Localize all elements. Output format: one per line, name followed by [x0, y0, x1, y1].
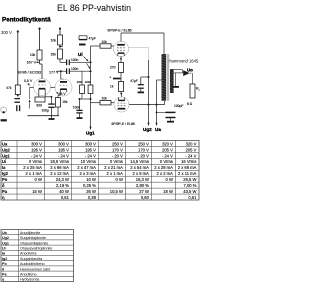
- resistor R6 15k cathode V2: [56, 98, 61, 108]
- svg-text:Ig2: Ig2: [2, 257, 7, 261]
- resistor R10 upper series cathode: [119, 63, 124, 73]
- resistor R11 lower series cathode: [119, 82, 124, 92]
- svg-text:Po: Po: [2, 262, 7, 266]
- svg-text:Ohjausvaihtojännite: Ohjausvaihtojännite: [20, 246, 52, 250]
- svg-text:Harmooninen särö: Harmooninen särö: [20, 267, 50, 271]
- wire V2 supply drop: [59, 29, 61, 35]
- svg-text:0 Vrms: 0 Vrms: [110, 159, 123, 164]
- svg-text:- 24 V: - 24 V: [185, 153, 196, 158]
- svg-text:Ui: Ui: [2, 159, 6, 164]
- wire R5 out to C4: [59, 59, 61, 62]
- capacitor C5 100n lower coupling: [61, 70, 67, 72]
- svg-text:Suojahilavirta: Suojahilavirta: [20, 257, 43, 261]
- svg-text:2 x 2 mA: 2 x 2 mA: [157, 171, 174, 176]
- capacitor symbol annotation box: [79, 36, 87, 40]
- capacitor C2 coupling vertical plates: [16, 105, 18, 111]
- svg-text:15 W: 15 W: [32, 189, 42, 194]
- svg-text:220k: 220k: [85, 80, 91, 84]
- svg-text:15k: 15k: [62, 100, 68, 104]
- svg-text:100n: 100n: [71, 67, 79, 71]
- wire 300V rail drop left: [17, 32, 19, 86]
- svg-text:167 V: 167 V: [27, 61, 37, 65]
- capacitor symbol annotation bar: [79, 44, 86, 46]
- svg-text:0,60: 0,60: [141, 195, 150, 200]
- resistor R2 10k anode V1: [37, 50, 42, 60]
- svg-text:24,3 W: 24,3 W: [56, 177, 69, 182]
- node mid cathode: [120, 73, 122, 82]
- resistor R5 15k: [58, 49, 63, 59]
- ground symbol bus: [51, 116, 53, 119]
- svg-text:EL 86 PP-vahvistin: EL 86 PP-vahvistin: [57, 3, 131, 13]
- ground bias cap: [79, 113, 81, 117]
- svg-text:2,19 %: 2,19 %: [56, 183, 69, 188]
- svg-text:- 24 V: - 24 V: [85, 153, 96, 158]
- svg-text:Ia: Ia: [2, 165, 6, 170]
- resistor R7 220k grid leak upper: [80, 85, 85, 94]
- svg-text:40 W: 40 W: [59, 189, 69, 194]
- svg-text:0,61: 0,61: [188, 195, 197, 200]
- svg-text:7,00 %: 7,00 %: [183, 183, 196, 188]
- resistor R9 1k grid stopper upper: [100, 44, 111, 48]
- svg-text:300 V: 300 V: [1, 30, 12, 35]
- wire to V4: [120, 92, 123, 98]
- annotation arrow input signal: [29, 100, 31, 109]
- capacitor C1 plates: [14, 98, 20, 100]
- node between R4 R5: [59, 46, 61, 48]
- svg-text:0,5 V: 0,5 V: [24, 79, 33, 83]
- svg-text:6P/9P-E / EL86: 6P/9P-E / EL86: [112, 122, 135, 126]
- svg-text:Pa: Pa: [2, 272, 7, 276]
- svg-text:26 W: 26 W: [86, 189, 96, 194]
- svg-text:27 W: 27 W: [139, 189, 149, 194]
- svg-text:2 x 12 mA: 2 x 12 mA: [50, 171, 69, 176]
- resistor RL load: [192, 73, 194, 84]
- wire secondary top: [174, 69, 183, 71]
- svg-text:820: 820: [37, 103, 43, 107]
- svg-text:300 V: 300 V: [85, 141, 96, 146]
- ground input: [1, 119, 7, 121]
- svg-text:250 V: 250 V: [138, 141, 149, 146]
- ground C7: [138, 91, 144, 93]
- svg-text:- 24 V: - 24 V: [162, 153, 173, 158]
- svg-text:Uo: Uo: [187, 67, 193, 72]
- ground C8: [167, 121, 174, 123]
- wire R6 to ground bus: [57, 107, 59, 116]
- svg-text:10k: 10k: [102, 40, 108, 44]
- table legend: [1, 230, 74, 282]
- node V2 anode: [60, 70, 62, 72]
- svg-text:2 x 11 mA: 2 x 11 mA: [178, 171, 197, 176]
- svg-text:Ug1: Ug1: [2, 241, 9, 245]
- svg-text:Ua: Ua: [2, 141, 8, 146]
- svg-text:Hyötysuhde: Hyötysuhde: [20, 278, 39, 282]
- svg-text:- 20 V: - 20 V: [138, 153, 149, 158]
- svg-text:26,5 W: 26,5 W: [183, 177, 196, 182]
- svg-text:170 V: 170 V: [112, 147, 123, 152]
- svg-text:320 V: 320 V: [186, 141, 197, 146]
- svg-text:δ: δ: [2, 267, 5, 271]
- resistor R3 820 cathode V1: [35, 97, 45, 102]
- svg-text:2 x 1 mA: 2 x 1 mA: [26, 171, 43, 176]
- capacitor C3 100u cathode bypass: [51, 97, 53, 104]
- svg-text:1k: 1k: [110, 84, 114, 88]
- node anode supply V1: [38, 28, 40, 30]
- svg-text:+: +: [109, 76, 111, 80]
- svg-text:Ia: Ia: [2, 252, 6, 256]
- svg-text:Ui: Ui: [78, 52, 83, 57]
- svg-text:2 x 21 mA: 2 x 21 mA: [104, 165, 123, 170]
- svg-text:Suojahilajännite: Suojahilajännite: [20, 236, 46, 240]
- svg-text:2 x 66 mA: 2 x 66 mA: [50, 165, 69, 170]
- svg-text:Ug2: Ug2: [2, 147, 11, 152]
- svg-text:195 V: 195 V: [58, 147, 69, 152]
- transformer T1 primary: [162, 54, 167, 101]
- svg-text:2 x 54 mA: 2 x 54 mA: [130, 165, 149, 170]
- ground bus: [28, 115, 60, 117]
- svg-text:- 24 V: - 24 V: [58, 153, 69, 158]
- resistor R8 220k grid leak lower: [88, 85, 93, 94]
- wire R2 to V1 anode: [39, 60, 41, 64]
- svg-text:205 V: 205 V: [186, 147, 197, 152]
- wire V3 screen to Ug2: [129, 47, 149, 49]
- node supply V2: [59, 28, 61, 30]
- svg-text:0 Vrms: 0 Vrms: [160, 159, 173, 164]
- wire V2 cathode down: [59, 92, 61, 95]
- tube V2 phase splitter: [55, 79, 72, 96]
- tube V4 EL86 lower: [114, 97, 129, 112]
- tube V1 EF86/ECC83: [34, 79, 51, 96]
- svg-text:Audiolähtöteho: Audiolähtöteho: [20, 262, 45, 266]
- svg-text:220k: 220k: [77, 80, 83, 84]
- capacitor plate mid: [113, 78, 121, 80]
- svg-text:2 x 9 mA: 2 x 9 mA: [133, 171, 150, 176]
- svg-text:15k: 15k: [50, 53, 56, 57]
- svg-text:L: L: [199, 90, 200, 92]
- wire V3 anode to transformer: [120, 33, 122, 42]
- transformer T1 secondary: [170, 69, 174, 93]
- capacitor C8 100uF supply: [157, 111, 171, 113]
- svg-text:EF86 / ECC83: EF86 / ECC83: [18, 71, 41, 75]
- svg-text:205 V: 205 V: [162, 147, 173, 152]
- svg-text:6P/9P-E / EL86: 6P/9P-E / EL86: [108, 29, 132, 33]
- wire Ua vertical: [156, 80, 158, 126]
- arrow Ui lower: [87, 63, 91, 69]
- svg-text:65 V: 65 V: [59, 92, 67, 96]
- svg-text:47µF: 47µF: [89, 37, 96, 41]
- transformer T1 core: [166, 54, 168, 101]
- wire R7 stub: [81, 71, 83, 85]
- wire Ua to centre tap: [157, 79, 162, 81]
- svg-text:- 20 V: - 20 V: [112, 153, 123, 158]
- wire main drive vertical: [90, 46, 92, 85]
- svg-text:2 x 68 mA: 2 x 68 mA: [178, 165, 197, 170]
- svg-text:10k: 10k: [102, 97, 108, 101]
- svg-text:2 x 1 mA: 2 x 1 mA: [107, 171, 124, 176]
- svg-text:10,5 W: 10,5 W: [110, 189, 123, 194]
- arrow Ui upper: [84, 57, 89, 62]
- resistor R1 47k: [15, 85, 20, 95]
- svg-text:320 V: 320 V: [162, 141, 173, 146]
- svg-text:250 V: 250 V: [112, 141, 123, 146]
- wire lower grid feed: [91, 102, 101, 104]
- wire V3 cathode down: [120, 56, 122, 62]
- svg-text:0,38: 0,38: [88, 195, 97, 200]
- wire bias rail: [80, 98, 91, 100]
- svg-text:Ua: Ua: [155, 127, 161, 132]
- wire lower drive: [70, 70, 91, 72]
- svg-text:δ: δ: [2, 183, 5, 188]
- svg-text:100n: 100n: [71, 58, 79, 62]
- wire V1 anode supply drop: [39, 29, 41, 50]
- svg-text:10k: 10k: [51, 39, 57, 43]
- svg-text:2,80 %: 2,80 %: [136, 183, 149, 188]
- svg-text:Ug1: Ug1: [86, 130, 95, 135]
- wire Ug1 feed: [90, 99, 92, 130]
- table operating values: [1, 141, 199, 201]
- svg-text:Ug2: Ug2: [143, 127, 152, 132]
- capacitor C4 100n upper coupling: [66, 60, 68, 66]
- tube V3 EL86 upper: [113, 41, 128, 56]
- arrow output Uo: [183, 70, 190, 76]
- svg-text:η: η: [2, 278, 5, 282]
- wire Ug2 vertical: [148, 60, 150, 126]
- svg-text:Ohjaushilajännite: Ohjaushilajännite: [20, 241, 48, 245]
- svg-text:100µF: 100µF: [174, 104, 183, 108]
- svg-text:170 V: 170 V: [138, 147, 149, 152]
- svg-text:Anoditeho: Anoditeho: [20, 272, 37, 276]
- arrowhead Ug2 terminal: [147, 123, 149, 126]
- wire V4 anode to transformer: [129, 104, 164, 106]
- wire V2 anode up: [60, 71, 62, 79]
- svg-text:10 Vrms: 10 Vrms: [81, 159, 96, 164]
- svg-text:2 x 28 mA: 2 x 28 mA: [154, 165, 173, 170]
- svg-text:18,5 Vrms: 18,5 Vrms: [50, 159, 69, 164]
- svg-text:300 V: 300 V: [58, 141, 69, 146]
- wire V1 to V2 grid: [51, 86, 56, 88]
- svg-text:8 Ω: 8 Ω: [187, 102, 193, 106]
- wire V1 cathode bus: [38, 92, 40, 97]
- arrowhead Ug1 terminal: [89, 127, 91, 130]
- svg-text:14,5 Vrms: 14,5 Vrms: [130, 159, 149, 164]
- svg-text:100µ: 100µ: [42, 108, 50, 112]
- input jack: [1, 107, 7, 113]
- capacitor C6 100n bias decoupling: [79, 99, 81, 110]
- svg-text:Ug2: Ug2: [2, 236, 9, 240]
- resistor R12 1k grid stopper lower: [100, 101, 111, 105]
- svg-text:16,3 W: 16,3 W: [136, 177, 149, 182]
- svg-text:0,61: 0,61: [61, 195, 70, 200]
- svg-text:Po: Po: [2, 177, 8, 182]
- svg-text:0 W: 0 W: [116, 177, 123, 182]
- svg-text:η: η: [2, 195, 5, 200]
- svg-text:300 V: 300 V: [31, 141, 42, 146]
- svg-text:47µF: 47µF: [130, 79, 138, 83]
- svg-text:Ug1: Ug1: [2, 153, 11, 158]
- svg-text:Ui: Ui: [2, 246, 6, 250]
- svg-text:2 x 47 mA: 2 x 47 mA: [77, 165, 96, 170]
- ground secondary: [175, 73, 177, 86]
- svg-text:0 W: 0 W: [35, 177, 42, 182]
- svg-text:47k: 47k: [6, 86, 12, 90]
- svg-text:2 x 3 mA: 2 x 3 mA: [80, 171, 97, 176]
- svg-text:0 W: 0 W: [166, 177, 173, 182]
- svg-text:Hammond 1645: Hammond 1645: [169, 59, 199, 64]
- svg-text:18 W: 18 W: [163, 189, 173, 194]
- svg-text:0,25 %: 0,25 %: [83, 183, 96, 188]
- svg-text:100n: 100n: [73, 105, 81, 109]
- svg-text:195 V: 195 V: [31, 147, 42, 152]
- svg-text:Pa: Pa: [2, 189, 8, 194]
- svg-text:43,5 W: 43,5 W: [183, 189, 196, 194]
- resistor R4 10k: [58, 35, 63, 45]
- svg-text:270: 270: [110, 65, 116, 69]
- svg-text:10 W: 10 W: [86, 177, 96, 182]
- svg-text:10k: 10k: [30, 53, 36, 57]
- svg-text:Pentodikytkentä: Pentodikytkentä: [2, 17, 51, 24]
- svg-text:2 x 25 mA: 2 x 25 mA: [23, 165, 42, 170]
- svg-text:0 Vrms: 0 Vrms: [29, 159, 42, 164]
- svg-text:16 Vrms: 16 Vrms: [181, 159, 196, 164]
- wire upper grid feed: [91, 45, 101, 47]
- svg-text:Ua: Ua: [2, 231, 8, 235]
- svg-text:- 24 V: - 24 V: [31, 153, 42, 158]
- svg-text:195 V: 195 V: [85, 147, 96, 152]
- capacitor C7 47uF screen decoupling: [141, 76, 149, 78]
- arrowhead Ua terminal: [155, 123, 157, 126]
- svg-text:Anodijännite: Anodijännite: [20, 231, 40, 235]
- svg-text:Anodivirta: Anodivirta: [20, 252, 37, 256]
- wire V1 grid: [30, 86, 34, 88]
- svg-text:Ig2: Ig2: [2, 171, 9, 176]
- wire upper drive: [70, 61, 91, 63]
- node below R1: [17, 95, 19, 97]
